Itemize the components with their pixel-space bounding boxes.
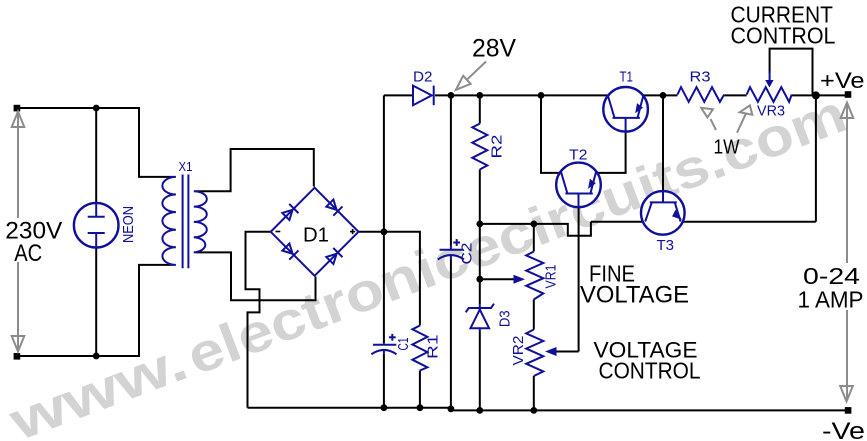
svg-text:VR3: VR3	[757, 103, 785, 120]
svg-text:VR1: VR1	[543, 265, 560, 289]
svg-text:R3: R3	[690, 69, 711, 86]
svg-text:NEON: NEON	[120, 206, 137, 243]
svg-text:0-24: 0-24	[803, 263, 860, 289]
svg-text:1W: 1W	[714, 137, 740, 159]
svg-text:1 AMP: 1 AMP	[798, 286, 864, 312]
svg-text:28V: 28V	[472, 35, 516, 63]
svg-text:CONTROL: CONTROL	[599, 358, 701, 384]
svg-text:R1: R1	[425, 335, 442, 360]
svg-text:D3: D3	[497, 311, 514, 328]
svg-text:VOLTAGE: VOLTAGE	[580, 282, 689, 309]
svg-text:T1: T1	[620, 69, 634, 86]
svg-text:C1: C1	[395, 338, 412, 351]
svg-text:T3: T3	[657, 237, 675, 254]
svg-text:VR2: VR2	[510, 336, 527, 366]
svg-text:+Ve: +Ve	[820, 68, 865, 93]
svg-text:AC: AC	[14, 240, 42, 267]
svg-text:D2: D2	[413, 68, 433, 85]
svg-text:R2: R2	[489, 135, 506, 159]
svg-text:T2: T2	[569, 147, 588, 164]
svg-text:X1: X1	[179, 160, 193, 174]
svg-text:D1: D1	[303, 225, 329, 247]
svg-text:C2: C2	[459, 243, 476, 265]
svg-text:CONTROL: CONTROL	[731, 22, 836, 48]
svg-text:-Ve: -Ve	[822, 418, 865, 441]
